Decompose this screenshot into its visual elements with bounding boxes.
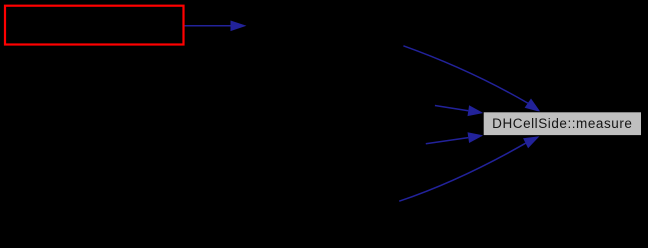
edge: hidden node to measure (bottom curve) xyxy=(399,136,539,201)
node: DHCellSide::measure (current function) xyxy=(483,112,641,136)
node: truncated caller (red box, label hidden) xyxy=(5,6,184,45)
edge: hidden node to measure (upper short arrow) xyxy=(435,105,483,116)
svg-text:DHCellSide::measure: DHCellSide::measure xyxy=(492,116,632,131)
edge: caller to hidden node (horizontal arrow) xyxy=(185,21,247,32)
edge: hidden node to measure (top curve) xyxy=(403,46,540,112)
edge: hidden node to measure (lower short arrow) xyxy=(426,132,484,144)
